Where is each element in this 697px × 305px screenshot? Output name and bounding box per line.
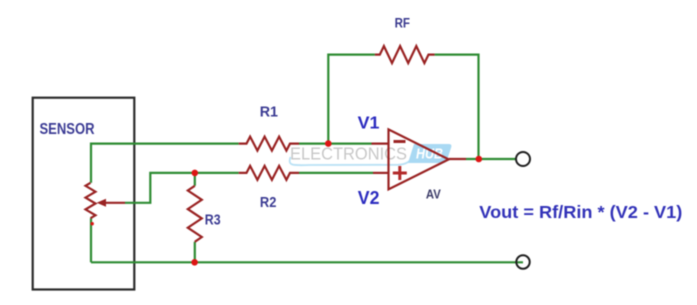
svg-text:AV: AV: [426, 186, 441, 201]
svg-text:RF: RF: [395, 15, 410, 30]
svg-text:R3: R3: [205, 212, 221, 229]
svg-text:SENSOR: SENSOR: [40, 121, 95, 138]
svg-text:R1: R1: [260, 104, 278, 121]
svg-text:V2: V2: [358, 188, 380, 208]
svg-text:V1: V1: [358, 113, 380, 133]
svg-text:R2: R2: [260, 194, 277, 211]
svg-text:Vout = Rf/Rin * (V2 - V1): Vout = Rf/Rin * (V2 - V1): [479, 202, 682, 222]
